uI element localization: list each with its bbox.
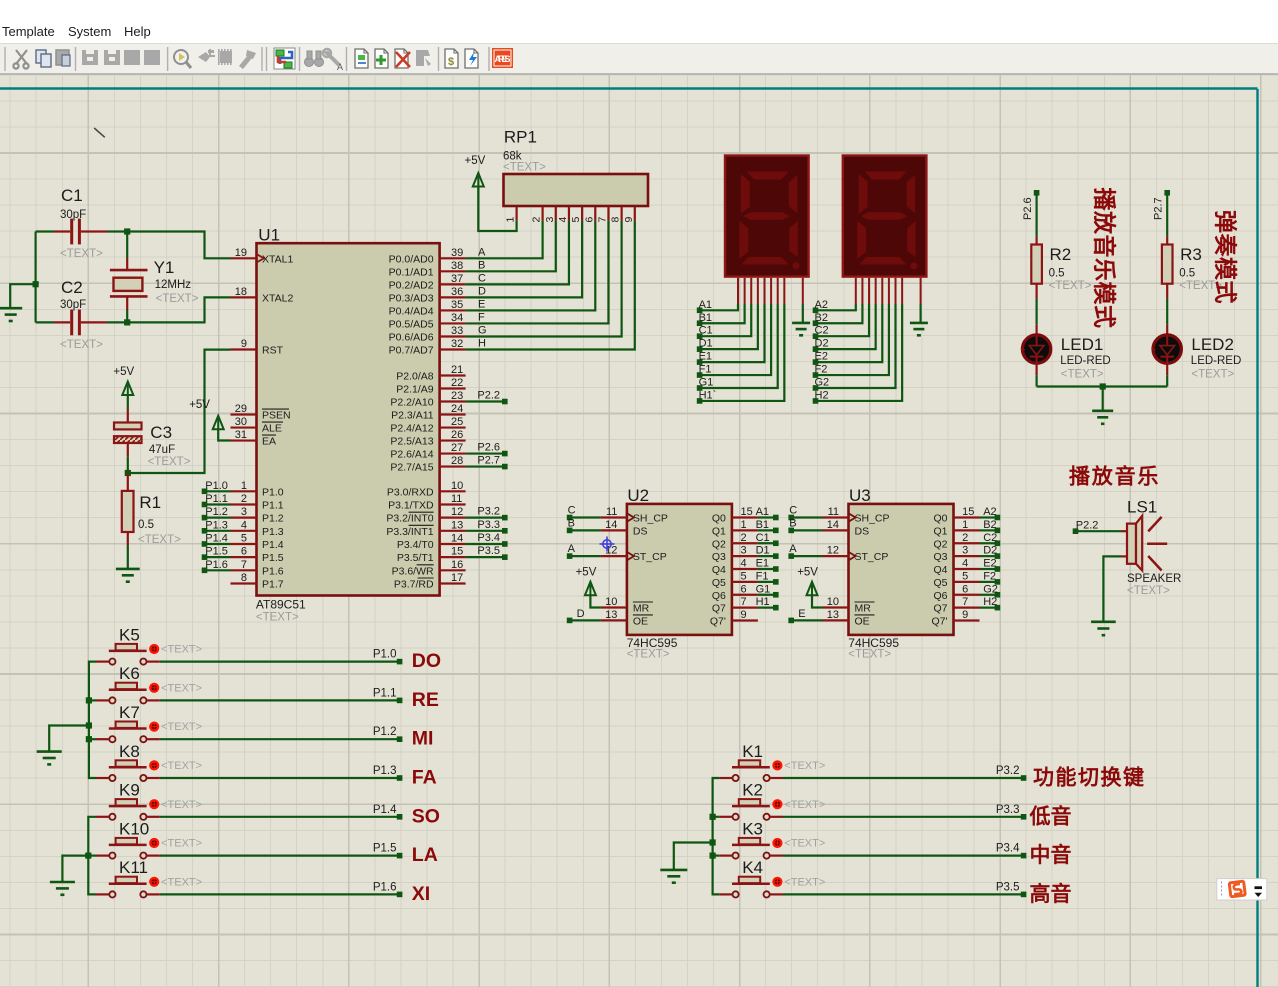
wire R3 to LED2 [1166, 299, 1168, 325]
svg-text:DS: DS [855, 525, 870, 537]
capacitor C3 electrolytic [114, 409, 191, 468]
svg-text:Q7: Q7 [712, 603, 726, 615]
svg-text:H1`: H1` [699, 389, 717, 401]
svg-text:P1.5: P1.5 [205, 546, 228, 558]
U1 pin P0.7/AD7 [389, 338, 466, 357]
svg-text:H1: H1 [756, 596, 770, 608]
wire C2 to XTAL2 [107, 297, 231, 322]
terminal C [567, 505, 576, 521]
svg-text:C1: C1 [756, 532, 770, 544]
toolbar icon netlist doc [355, 49, 368, 68]
U3 pin Q4 [933, 558, 979, 577]
wire net P1.1 from K6 [160, 699, 398, 701]
svg-text:Q3: Q3 [933, 551, 947, 563]
wire C1 to XTAL1 [107, 232, 231, 259]
terminal D1 [697, 338, 713, 352]
wire net B2 display segment [816, 278, 863, 323]
svg-text:P1.4: P1.4 [205, 532, 228, 544]
svg-text:LS1: LS1 [1127, 498, 1157, 517]
U3 pin MR [823, 596, 875, 615]
svg-text:高音: 高音 [1030, 882, 1072, 906]
svg-text:Q4: Q4 [712, 564, 726, 576]
U1 pin P1.5 [231, 546, 284, 565]
svg-text:C: C [789, 505, 797, 517]
svg-text:6: 6 [241, 546, 247, 558]
svg-text:DS: DS [633, 525, 648, 537]
LED LED2 [1151, 325, 1241, 381]
U1 pin PSEN [231, 403, 291, 422]
toolbar icon chip [218, 49, 232, 65]
svg-text:P1.1: P1.1 [373, 687, 397, 699]
wire net H2 from U3 Q7 [980, 607, 996, 609]
terminal P3.4 [996, 843, 1027, 859]
wire net P1.2 from K7 [160, 738, 398, 740]
terminal E [788, 608, 805, 623]
svg-text:<TEXT>: <TEXT> [1049, 280, 1092, 292]
svg-text:Q0: Q0 [712, 513, 726, 525]
toolbar icon goto doc [416, 50, 431, 66]
svg-text:P3.2: P3.2 [477, 506, 500, 518]
terminal P3.2 [477, 506, 507, 521]
svg-text:<TEXT>: <TEXT> [256, 612, 299, 624]
wire P2.7 to R3 [1166, 195, 1168, 237]
terminal A [788, 543, 797, 559]
terminal P1.5 [373, 843, 403, 859]
svg-text:16: 16 [451, 559, 463, 571]
toolbar icon delete doc [395, 49, 410, 68]
svg-text:P2.2: P2.2 [1076, 520, 1099, 532]
svg-text:11: 11 [828, 506, 839, 518]
svg-text:A2: A2 [983, 506, 996, 518]
U1 pin P3.5/T1 [397, 546, 466, 565]
svg-text:3: 3 [741, 545, 747, 557]
terminal P2.2 at speaker [1073, 520, 1099, 535]
wire bus K5-K8 left [89, 662, 96, 778]
terminal G2 [813, 377, 829, 391]
terminal F2 [983, 570, 1000, 584]
svg-text:6: 6 [962, 583, 968, 595]
svg-text:Q7: Q7 [933, 603, 947, 615]
terminal D2 [813, 338, 829, 352]
svg-text:P1.4: P1.4 [373, 804, 397, 816]
svg-text:7: 7 [962, 596, 968, 608]
terminal C2 [983, 532, 1000, 546]
wire net P3.4 from U1 [466, 543, 503, 545]
wire net H1` display segment [700, 278, 785, 401]
svg-text:R1: R1 [139, 493, 161, 512]
toolbar icon block [82, 50, 98, 65]
toolbar icon hammer [239, 50, 256, 69]
wire net G2 display segment [816, 278, 896, 388]
U1 pin P2.7/A15 [390, 455, 465, 474]
wire net D P0.3 to RP1 pin 5 [466, 221, 583, 298]
terminal G2 [983, 583, 1000, 597]
terminal B2 [813, 312, 828, 326]
toolbar icon ARES [492, 48, 513, 68]
svg-text:B1: B1 [699, 312, 712, 324]
wire net H P0.7 to RP1 pin 9 [466, 221, 635, 350]
svg-text:+5V: +5V [465, 155, 486, 167]
button K5 [96, 625, 202, 664]
svg-text:<TEXT>: <TEXT> [161, 644, 202, 656]
U3 pin OE [823, 609, 875, 628]
svg-text:13: 13 [605, 609, 617, 621]
wire bus K9-K11 left [88, 817, 96, 895]
svg-text:DO: DO [412, 650, 441, 672]
svg-text:G2: G2 [983, 583, 998, 595]
wire net D1 display segment [700, 278, 758, 349]
junction K7 bus [86, 736, 92, 742]
U2 pin DS [601, 519, 648, 538]
svg-text:K3: K3 [742, 819, 763, 838]
U3 pin SH_CP [823, 506, 890, 525]
wire net G1 display segment [700, 278, 778, 388]
wire net B to U2 [572, 529, 601, 531]
terminal H1 [756, 596, 779, 610]
terminal B [788, 517, 796, 533]
svg-text:28: 28 [451, 455, 463, 467]
svg-text:33: 33 [451, 325, 463, 337]
svg-text:8: 8 [241, 572, 247, 584]
terminal C1 [756, 532, 779, 546]
svg-text:H2: H2 [983, 596, 997, 608]
svg-text:13: 13 [451, 519, 463, 531]
svg-text:<TEXT>: <TEXT> [161, 682, 202, 694]
U1 pin EA [231, 429, 277, 448]
U1 pin P0.0/AD0 [389, 247, 466, 265]
wire net B2 from U3 Q1 [980, 529, 996, 531]
svg-text:A1: A1 [756, 506, 769, 518]
wire net P1.6 at U1 [206, 569, 230, 571]
svg-text:+5V: +5V [576, 567, 597, 579]
svg-text:SH_CP: SH_CP [633, 513, 668, 525]
button K3 [719, 819, 825, 858]
U2 pin Q0 [712, 506, 758, 525]
svg-text:LED1: LED1 [1061, 335, 1104, 354]
svg-text:P3.2/INT0: P3.2/INT0 [386, 513, 433, 525]
stray cursor mark [94, 128, 105, 137]
button K4 [719, 858, 825, 897]
wire P2.6 to R2 [1035, 195, 1037, 237]
power +5V at U3 MR [797, 567, 822, 608]
svg-text:U3: U3 [849, 486, 871, 505]
U2 pin Q3 [712, 545, 758, 564]
svg-text:P3.2: P3.2 [996, 765, 1020, 777]
terminal D [567, 608, 585, 623]
svg-text:14: 14 [605, 519, 617, 531]
junction C3-R1-RST [125, 470, 131, 476]
terminal H2 [983, 596, 1000, 610]
origin marker blue [600, 537, 615, 552]
U3 pin Q3 [933, 545, 979, 564]
wire net E2 from U3 Q4 [980, 568, 996, 570]
wire net C to U3 [793, 516, 822, 518]
svg-text:37: 37 [451, 273, 463, 285]
svg-text:P2.7/A15: P2.7/A15 [390, 462, 433, 474]
svg-text:P2.7: P2.7 [1153, 197, 1165, 220]
terminal A1 [756, 506, 779, 520]
wire net P3.2 from U1 [466, 517, 503, 519]
terminal B2 [983, 519, 1000, 533]
wire net F2 from U3 Q5 [980, 581, 996, 583]
svg-text:B: B [568, 517, 575, 529]
svg-text:1: 1 [741, 519, 747, 531]
toolbar icon copy [36, 50, 51, 67]
wire net A1 from U2 Q0 [758, 516, 774, 518]
wire net P2.6 from U1 [466, 452, 503, 454]
wire net P3.3 from U1 [466, 530, 503, 532]
svg-text:P3.3: P3.3 [477, 519, 500, 531]
wire net B1 display segment [700, 278, 745, 323]
terminal P3.3 [996, 804, 1027, 820]
svg-text:A2: A2 [815, 299, 828, 311]
svg-text:11: 11 [606, 506, 617, 518]
shift register U2 74HC595 [627, 486, 732, 661]
terminal A1 [697, 299, 712, 313]
U3 pin Q7 [933, 596, 979, 615]
terminal A2 [813, 299, 828, 313]
toolbar icon bom doc [445, 49, 458, 68]
terminal D2 [983, 545, 1000, 559]
svg-text:B2: B2 [983, 519, 996, 531]
svg-text:低音: 低音 [1029, 804, 1072, 828]
terminal P1.0 [373, 649, 403, 665]
svg-text:P3.5/T1: P3.5/T1 [397, 552, 434, 564]
terminal F1 [697, 364, 712, 378]
button K7 [96, 703, 202, 742]
wire net P1.3 at U1 [206, 530, 230, 532]
U3 pin DS [823, 519, 870, 538]
svg-text:Y1: Y1 [154, 258, 175, 277]
svg-text:LED-RED: LED-RED [1191, 355, 1241, 367]
svg-text:ARES: ARES [495, 54, 511, 64]
U2 pin Q5 [712, 570, 758, 589]
terminal C1 [697, 325, 713, 339]
button K6 [96, 664, 202, 703]
svg-text:Q4: Q4 [933, 564, 947, 576]
svg-text:P1.7: P1.7 [262, 578, 284, 590]
ground at display common [792, 322, 810, 325]
svg-text:E2: E2 [815, 351, 828, 363]
svg-text:15: 15 [962, 506, 974, 518]
wire net A P0.0 to RP1 pin 2 [466, 221, 543, 258]
wire net A2 from U3 Q0 [980, 516, 996, 518]
terminal F2 [813, 364, 828, 378]
svg-text:<TEXT>: <TEXT> [627, 649, 670, 661]
svg-text:P3.3: P3.3 [996, 804, 1020, 816]
svg-text:P0.5/AD5: P0.5/AD5 [389, 318, 434, 330]
toolbar icon zoom [174, 50, 191, 68]
svg-text:P3.7/RD: P3.7/RD [394, 578, 434, 590]
terminal B [567, 517, 575, 533]
svg-text:<TEXT>: <TEXT> [503, 162, 546, 174]
resistor pack RP1 68k [503, 128, 648, 223]
svg-text:C1: C1 [61, 186, 83, 205]
svg-text:Q5: Q5 [933, 577, 947, 589]
svg-text:G1: G1 [756, 583, 771, 595]
U1 pin P2.5/A13 [390, 429, 465, 448]
svg-text:4: 4 [741, 558, 747, 570]
toolbar icon cut [13, 50, 28, 69]
LED LED1 [1021, 325, 1111, 381]
svg-text:Q2: Q2 [933, 538, 947, 550]
svg-text:C3: C3 [150, 423, 172, 442]
wire net H2 display segment [816, 278, 903, 401]
button K8 [96, 742, 202, 781]
toolbar icon plug [198, 49, 215, 62]
U1 pin P1.0 [231, 480, 284, 499]
svg-text:P3.4: P3.4 [477, 532, 500, 544]
svg-text:0.5: 0.5 [1179, 268, 1195, 280]
svg-text:35: 35 [451, 299, 463, 311]
svg-text:ST_CP: ST_CP [633, 551, 667, 563]
terminal C [788, 505, 797, 521]
svg-text:21: 21 [451, 364, 463, 376]
menu bar [0, 0, 1278, 43]
wire net A1 display segment [700, 278, 738, 311]
wire net E1 display segment [700, 278, 765, 362]
wire net D1 from U2 Q3 [758, 555, 774, 557]
svg-text:LED-RED: LED-RED [1060, 355, 1110, 367]
U1 pin P1.7 [231, 572, 284, 591]
terminal P1.1 at U1 [202, 493, 228, 507]
terminal P1.3 at U1 [202, 519, 228, 533]
U3 pin ST_CP [823, 545, 889, 564]
U1 pin P1.1 [231, 493, 284, 512]
U3 pin Q0 [933, 506, 979, 525]
svg-text:LA: LA [412, 844, 438, 866]
svg-text:F: F [478, 311, 485, 323]
svg-text:47uF: 47uF [149, 444, 175, 456]
svg-text:2: 2 [241, 493, 247, 505]
svg-text:R3: R3 [1180, 245, 1202, 264]
svg-text:H: H [478, 338, 486, 350]
svg-text:XTAL2: XTAL2 [262, 292, 293, 304]
toolbar icon property tool [323, 49, 343, 72]
svg-text:P2.6: P2.6 [1022, 197, 1034, 220]
svg-text:P1.3: P1.3 [205, 519, 228, 531]
svg-text:C: C [568, 505, 576, 517]
svg-text:P0.6/AD6: P0.6/AD6 [389, 331, 434, 343]
wire net P3.5 from U1 [466, 556, 503, 558]
terminal P1.3 [373, 765, 403, 781]
svg-text:P0.7/AD7: P0.7/AD7 [389, 345, 434, 357]
wire ground branch K9-K11 [62, 856, 88, 882]
svg-text:E: E [478, 298, 485, 310]
svg-text:+5V: +5V [189, 399, 210, 411]
U2 pin OE [601, 609, 653, 628]
svg-text:D2: D2 [983, 545, 997, 557]
terminal E2 [983, 558, 1000, 572]
svg-text:K10: K10 [119, 819, 149, 838]
wire net P1.3 from K8 [160, 777, 398, 779]
svg-text:P2.2: P2.2 [477, 390, 500, 402]
svg-text:H2: H2 [815, 389, 829, 401]
svg-text:A: A [789, 543, 797, 555]
svg-text:P2.4/A12: P2.4/A12 [390, 423, 433, 435]
svg-text:10: 10 [451, 480, 463, 492]
svg-text:A: A [568, 543, 576, 555]
svg-text:<TEXT>: <TEXT> [148, 456, 191, 468]
svg-text:26: 26 [451, 429, 463, 441]
capacitor C1 [54, 186, 107, 260]
svg-text:P1.2: P1.2 [262, 513, 284, 525]
terminal P1.5 at U1 [202, 546, 228, 560]
terminal G1 [756, 583, 779, 597]
U2 pin MR [601, 596, 653, 615]
svg-text:P1.2: P1.2 [205, 506, 228, 518]
wire RST net [128, 350, 231, 473]
svg-text:<TEXT>: <TEXT> [156, 293, 199, 305]
svg-text:13: 13 [827, 609, 839, 621]
wire net G2 from U3 Q6 [980, 594, 996, 596]
terminal P1.4 [373, 804, 403, 820]
svg-text:39: 39 [451, 247, 463, 259]
terminal P1.2 [373, 726, 403, 742]
U1 pin P3.7/RD [394, 572, 466, 591]
7-segment display 1 [725, 156, 809, 277]
ground K5-K8 group [37, 750, 62, 753]
toolbar icon electric doc [465, 49, 478, 68]
toolbar icon block [124, 50, 140, 65]
svg-text:E: E [798, 608, 805, 620]
wire net C1 display segment [700, 278, 752, 336]
svg-text:Q0: Q0 [933, 513, 947, 525]
toolbar separators [5, 47, 489, 71]
wire LED ground rail [1037, 385, 1168, 387]
wire LED2 to ground rail [1166, 375, 1168, 386]
svg-text:A: A [478, 246, 486, 258]
terminal B1 [697, 312, 712, 326]
svg-text:12: 12 [451, 506, 463, 518]
terminal B1 [756, 519, 779, 533]
svg-text:P1.4: P1.4 [262, 539, 284, 551]
terminal P3.4 [477, 532, 507, 547]
svg-text:P1.5: P1.5 [373, 843, 397, 855]
wire net D2 from U3 Q3 [980, 555, 996, 557]
svg-text:<TEXT>: <TEXT> [60, 339, 103, 351]
svg-text:D2: D2 [815, 338, 829, 350]
terminal P3.5 [996, 881, 1027, 897]
svg-text:SPEAKER: SPEAKER [1127, 573, 1181, 585]
svg-text:<TEXT>: <TEXT> [1127, 585, 1170, 597]
power +5V above C3 [113, 366, 134, 409]
svg-text:3: 3 [241, 506, 247, 518]
svg-text:3: 3 [544, 217, 556, 223]
svg-text:中音: 中音 [1030, 843, 1072, 867]
U1 pin P3.3/INT1 [386, 519, 465, 538]
svg-text:K11: K11 [119, 858, 148, 877]
svg-text:R2: R2 [1050, 245, 1072, 264]
U1 pin P2.1/A9 [396, 377, 465, 396]
svg-text:P1.5: P1.5 [262, 552, 284, 564]
wire net C1 from U2 Q2 [758, 542, 774, 544]
U1 pin P3.2/INT0 [386, 506, 465, 525]
junction C1-Y1 [124, 228, 130, 234]
svg-text:P0.2/AD2: P0.2/AD2 [389, 279, 434, 291]
display common pin wire [802, 278, 804, 323]
svg-text:P2.3/A11: P2.3/A11 [391, 410, 434, 422]
svg-text:5: 5 [241, 532, 247, 544]
U2 pin Q1 [712, 519, 758, 538]
svg-text:<TEXT>: <TEXT> [161, 760, 202, 772]
svg-text:7: 7 [741, 596, 747, 608]
wire ground branch K1-K4 [674, 843, 713, 870]
ground K9-K11 group [50, 881, 75, 884]
wire net H1 from U2 Q7 [758, 607, 774, 609]
svg-text:AT89C51: AT89C51 [256, 597, 306, 611]
svg-text:F2: F2 [815, 364, 828, 376]
